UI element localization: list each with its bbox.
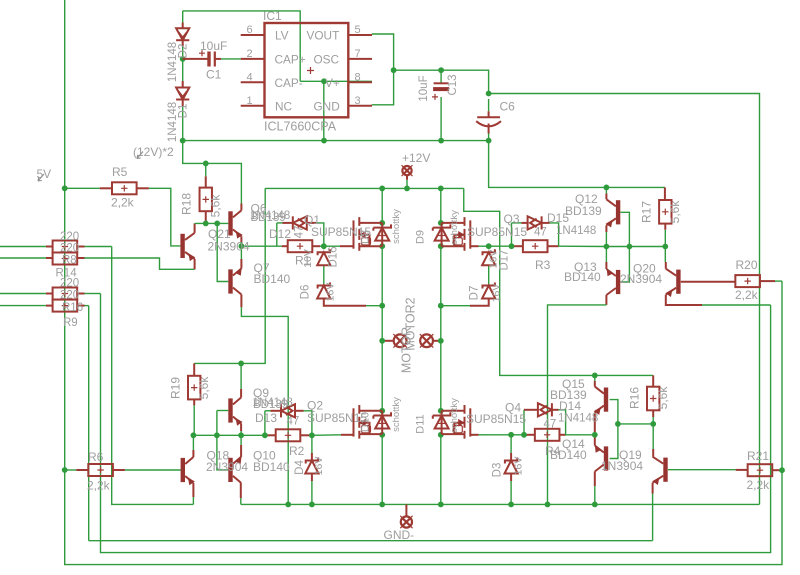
wire (12V)*2 down and across to R17 top (489, 141, 665, 188)
wire R2 right stub (300, 434, 312, 436)
wire Q7 emitter stub (240, 259, 242, 269)
svg-text:D12: D12 (269, 227, 291, 241)
svg-text:220: 220 (60, 243, 79, 255)
svg-text:R9: R9 (63, 317, 78, 329)
capacitor C13 10uF (432, 83, 449, 100)
wire D3 top stub (510, 453, 512, 461)
wire R17 bottom to row (664, 230, 666, 247)
wire Q19 collector stub (652, 449, 654, 457)
transistor Q15 BD139 (595, 387, 609, 414)
svg-text:8: 8 (355, 71, 361, 83)
wire lower-left output row (193, 434, 265, 436)
junction lower-left base link (214, 432, 220, 438)
svg-text:R20: R20 (736, 258, 758, 272)
wire R16 bottom to base row (652, 417, 654, 424)
junction lower-right emitters (592, 432, 598, 438)
wire R2 to Q2 gate (312, 434, 341, 437)
wire Q19 base to R21 (668, 469, 736, 471)
svg-text:3: 3 (355, 95, 361, 107)
svg-text:SUP85N15: SUP85N15 (466, 412, 526, 426)
svg-text:BD139: BD139 (251, 212, 286, 224)
svg-text:5: 5 (355, 24, 361, 36)
wire box1 to riser (85, 246, 112, 248)
wire box4 to line1 riser (85, 305, 89, 307)
wire pin8 node down to (12V)*2 rail (323, 81, 325, 140)
junction D1/rail (180, 138, 186, 144)
wire D6 bottom to source rail red part (324, 299, 366, 306)
motor terminal M2 right (420, 334, 433, 347)
svg-text:R16: R16 (628, 387, 642, 409)
wire Q19 emitter down crossing ground rail (652, 494, 654, 541)
wire D13 right down to gate node (304, 411, 312, 436)
svg-text:5,6k: 5,6k (197, 376, 211, 400)
svg-text:+12V: +12V (402, 151, 430, 165)
wire D17 to D7 (488, 265, 490, 285)
wire D3 bottom stub (510, 474, 512, 482)
svg-text:1N4148: 1N4148 (558, 413, 598, 425)
wire link to Q7 base (217, 223, 228, 281)
wire 220 box4 right stub (77, 305, 84, 307)
wire box3 to line2 riser (85, 293, 101, 295)
junction +12V/Q3 drain (438, 186, 444, 192)
wire Q12 collector to rail (605, 187, 607, 193)
wire D3 node to D14 node (511, 434, 524, 436)
wire V+ pin8 row (300, 80, 372, 82)
svg-text:MOTOR2: MOTOR2 (404, 297, 418, 350)
wire R6 right stub (113, 469, 125, 471)
junction R21 right bus (779, 467, 785, 473)
svg-text:V+: V+ (325, 76, 340, 90)
wire input row4 from left edge (0, 305, 46, 307)
wire node to Q6 collector (206, 163, 242, 203)
wire Q20 collector green (664, 247, 666, 263)
wire Q4 gate green part (479, 434, 489, 436)
svg-text:R21: R21 (747, 449, 769, 463)
wire R1 right to gate node (320, 245, 324, 247)
svg-text:16V: 16V (302, 249, 314, 268)
wire Q6 emitter to output node (240, 242, 242, 251)
transistor Q14 BD140 (595, 446, 608, 472)
resistor R4 47 (535, 429, 560, 441)
diode D12 1N4148 (293, 216, 307, 229)
supply (12V)*2 label (133, 145, 174, 159)
wire 5V to R5 left (65, 187, 100, 189)
transistor Q12 BD139 (606, 199, 620, 226)
resistor R17 5,6k (659, 200, 671, 224)
wire Q12 emitter stub (605, 225, 607, 232)
wire Q9 collector to +12V row (240, 363, 242, 389)
svg-text:C13: C13 (447, 74, 459, 95)
svg-text:10uF: 10uF (418, 75, 430, 101)
junction motor right (438, 338, 444, 344)
wire GND- stub (405, 504, 407, 516)
wire 220 box4 left stub (46, 305, 53, 307)
wire node down to R18 top (205, 163, 207, 176)
wire D12 left link (277, 222, 283, 224)
svg-text:R16: R16 (62, 302, 83, 314)
wire Q1 source / motor left rail (381, 246, 383, 411)
wire +12V jog down-right to R16 top (464, 188, 653, 375)
transistor Q1 SUP85N15 with schottky D8 (354, 217, 392, 251)
svg-text:6: 6 (247, 24, 253, 36)
wire R3 left stub (512, 245, 523, 247)
svg-text:D11: D11 (415, 414, 427, 433)
wire 220 box3 right stub (77, 293, 84, 295)
svg-text:D6: D6 (300, 285, 312, 300)
wire bottom line2 loop to Q20 emitter (101, 294, 771, 553)
svg-text:D1: D1 (178, 104, 190, 119)
junction rail left leg (379, 502, 385, 508)
svg-text:16V: 16V (325, 283, 337, 302)
transistor Q10 BD140 (228, 457, 241, 483)
wire Q20 collector stub (665, 262, 667, 269)
svg-text:2,2k: 2,2k (111, 196, 135, 210)
svg-text:5,6k: 5,6k (656, 386, 670, 410)
wire (12V)*2 rail (183, 140, 489, 142)
svg-text:47: 47 (544, 419, 557, 431)
resistor R21 2,2k (748, 464, 773, 476)
wire D1 top lead (182, 59, 184, 81)
wire R16 bottom pin stub (652, 410, 654, 417)
junction 5V/R5 (62, 185, 68, 191)
transistor Q20 2N3904 (666, 269, 681, 296)
resistor R6 2,2k (88, 464, 113, 476)
junction Q7 collector ground (285, 502, 291, 508)
junction R17 bottom (662, 244, 668, 250)
svg-text:5,6k: 5,6k (668, 200, 682, 224)
wire R17 top pin stub (664, 187, 666, 200)
wire D13 left link (265, 410, 271, 412)
svg-text:10uF: 10uF (200, 39, 227, 53)
wire D13 right stub (295, 410, 304, 412)
wire R4 to emitters (566, 434, 595, 436)
wire D4 bottom stub (311, 474, 313, 482)
svg-text:GND: GND (314, 99, 340, 113)
junction Q2 gate node (309, 432, 315, 438)
wire VOUT pin5 to pin3 loop (372, 34, 394, 105)
resistor R3 47 (523, 240, 548, 252)
svg-text:CAP-: CAP- (275, 76, 303, 90)
wire input row3 from left edge (0, 293, 46, 295)
wire Q15-Q14 base link (610, 400, 618, 459)
svg-text:schottky: schottky (391, 397, 402, 432)
resistor R16 5,6k (647, 387, 659, 411)
resistor R18 5,6k (200, 188, 212, 212)
wire Q13 collector to ground rail (548, 305, 607, 505)
svg-text:R6: R6 (88, 450, 104, 464)
wire upper-right emitter row (606, 246, 665, 248)
wire R5 left pin stub (100, 187, 112, 189)
wire Q20 emitter red part (666, 295, 702, 305)
wire zener clamp to motor rail (366, 305, 382, 307)
wire zener clamp to motor rail right (441, 305, 470, 307)
svg-text:2: 2 (247, 48, 253, 60)
wire D3 node down (510, 435, 512, 453)
junction Q3 drain (438, 220, 444, 226)
wire D2 bottom lead (182, 40, 184, 46)
wire Q15 collector to +12V row (594, 375, 596, 381)
svg-text:D3: D3 (492, 463, 504, 478)
junction Q3 gate node (509, 243, 515, 249)
svg-text:2N3904: 2N3904 (620, 272, 662, 286)
junction rail right leg (438, 502, 444, 508)
wire C13 top stub (440, 70, 442, 83)
wire Q10 emitter stub (240, 445, 242, 457)
wire Q9 collector stub (240, 389, 242, 398)
svg-text:schottky: schottky (449, 210, 460, 245)
svg-text:D15: D15 (547, 211, 569, 225)
junction C13 top (438, 67, 444, 73)
svg-text:16V: 16V (513, 457, 525, 476)
svg-text:D2: D2 (178, 44, 190, 59)
ground GND- symbol (400, 516, 412, 528)
wire base node row upper-left (195, 222, 229, 224)
junction R16 bottom (650, 421, 656, 427)
transistor Q4 SUP85N15 with schottky D11 (433, 405, 471, 439)
junction D4 ground (309, 502, 315, 508)
wire gate node to D16 (323, 246, 325, 249)
junction Q1 source (379, 243, 385, 249)
junction Q9 collector feed (238, 361, 244, 367)
wire input row1 from left edge (0, 246, 46, 248)
wire Q1 gate red lead (340, 245, 354, 247)
junction Q2 source (379, 432, 385, 438)
wire Q21 collector stub (194, 223, 196, 233)
wire C1 to pin2 (221, 58, 241, 60)
svg-text:2,2k: 2,2k (747, 478, 771, 492)
junction R19 bottom (191, 432, 197, 438)
junction lower-right base link (615, 421, 621, 427)
transistor Q3 SUP85N15 with schottky D9 (433, 217, 471, 251)
wire Q7 emitter link green (240, 251, 242, 259)
wire Q13 emitter stub (605, 262, 607, 269)
wire D14 left riser (523, 410, 525, 435)
junction 5V/R6 (62, 467, 68, 473)
wire Q20 base to R20 (681, 281, 736, 283)
wire zener node to gate node right (489, 245, 512, 247)
zener diode D7 16V (482, 283, 495, 299)
svg-text:1N4148: 1N4148 (556, 225, 596, 237)
transistor Q9 BD139 (228, 398, 241, 425)
wire D1 bottom lead (182, 100, 184, 107)
junction Q4 drain (438, 408, 444, 414)
wire Q4 gate red lead (470, 434, 478, 436)
svg-text:16V: 16V (313, 457, 325, 476)
wire Q21 emitter stub (194, 259, 196, 269)
wire Q14 emitter stub (594, 435, 596, 446)
wire C6 bottom lead (488, 134, 490, 141)
svg-text:R19: R19 (169, 377, 183, 399)
diode D15 1N4148 (528, 216, 542, 229)
junction Q2 drain (379, 408, 385, 414)
wire 5V bus to R6 (65, 469, 77, 471)
wire Q7 collector stub (240, 295, 242, 308)
junction rail/C6 (486, 138, 492, 144)
junction VOUT node (391, 67, 397, 73)
wire Q13 emitter green (605, 247, 607, 263)
svg-text:GND-: GND- (384, 528, 415, 542)
svg-text:47: 47 (534, 227, 547, 239)
svg-text:BD140: BD140 (254, 272, 291, 286)
supply 5V label (37, 167, 52, 181)
transistor Q6 BD139 (228, 210, 241, 237)
junction Q14 collector ground (592, 502, 598, 508)
wire +12V supply drop (406, 180, 408, 189)
svg-text:schottky: schottky (391, 209, 402, 244)
wire Q9-Q10 base link (217, 411, 228, 470)
resistor R2 47 (276, 429, 301, 441)
wire R20 right stub (760, 280, 775, 282)
wire R21 left stub (736, 469, 748, 471)
wire 220 box2 left stub (46, 257, 53, 259)
svg-text:BD140: BD140 (564, 270, 601, 284)
wire Q9 emitter to row (240, 431, 242, 435)
wire Q18 emitter stub (192, 483, 194, 497)
wire Q10 collector drop green (240, 498, 242, 504)
wire R19 top pin stub (193, 363, 195, 375)
svg-text:BD139: BD139 (253, 399, 288, 411)
svg-text:5,6k: 5,6k (209, 194, 223, 218)
junction C6 top (486, 91, 492, 97)
wire R19 bottom pin stub (193, 399, 195, 405)
junction R18 feed node (203, 161, 209, 167)
wire lower-right base row (618, 423, 653, 425)
junction clamp right (438, 303, 444, 309)
resistor R20 2,2k (735, 275, 760, 287)
wire +12V rail (265, 187, 464, 189)
svg-text:2,2k: 2,2k (735, 288, 759, 302)
svg-text:SUP85N15: SUP85N15 (307, 411, 367, 425)
resistor R19 5,6k (188, 376, 200, 400)
wire R16 top pin stub (652, 375, 654, 386)
IC1 pin stubs (241, 35, 372, 106)
zener diode D6 16V (317, 283, 330, 299)
wire R3 right stub (548, 245, 559, 247)
wire Q15 emitter stub (594, 413, 596, 435)
wire R2 left stub (265, 434, 276, 436)
svg-text:C6: C6 (500, 100, 516, 114)
wire Q14 collector stub (594, 472, 596, 487)
junction clamp left (379, 303, 385, 309)
junction motor left (379, 338, 385, 344)
wire R18 bottom pin stub (205, 211, 207, 223)
wire Q18 collector stub (192, 450, 194, 457)
junction zener chain right (486, 243, 492, 249)
svg-text:(12V)*2: (12V)*2 (133, 145, 174, 159)
svg-text:R18: R18 (180, 193, 194, 215)
svg-text:ICL7660CPA: ICL7660CPA (264, 120, 337, 134)
junction pin8 V+ (321, 78, 327, 84)
wire bottom line1 (89, 540, 653, 542)
wire R21 right stub (772, 469, 782, 471)
resistor R1 47 (288, 240, 313, 252)
svg-text:4: 4 (247, 71, 253, 83)
wire motor right stub (433, 340, 441, 342)
wire GND- rail (241, 503, 760, 505)
diode D1 1N4148 (176, 88, 189, 100)
svg-text:1: 1 (247, 95, 253, 107)
wire input row1 down to Q18 emitter return (112, 247, 194, 505)
junction D2/C1 (180, 56, 186, 62)
diode D2 1N4148 (176, 28, 189, 40)
svg-text:220: 220 (60, 231, 79, 243)
transistor Q19 2N3904 (653, 457, 668, 484)
wire R17 bottom stub (664, 223, 666, 230)
svg-text:C1: C1 (206, 68, 222, 82)
wire R4 left stub (524, 434, 535, 436)
wire base row down to Q18 collector (192, 435, 194, 450)
wire Q6 collector stub (240, 204, 242, 211)
svg-text:BD139: BD139 (565, 204, 602, 218)
wire gate node to D4 (311, 435, 313, 453)
svg-text:VOUT: VOUT (307, 29, 340, 43)
wire Q3 gate red lead (470, 245, 478, 247)
junction D14 node (521, 432, 527, 438)
wire D4 to ground rail (311, 481, 313, 504)
svg-text:D16: D16 (328, 246, 340, 267)
junction R18 bottom (203, 221, 209, 227)
wire Q7 collector to ground rail (241, 307, 288, 504)
junction Q1 gate node (321, 243, 327, 249)
resistor R9 220 (53, 300, 78, 312)
wire Q12-Q13 base link (621, 212, 630, 282)
wire D3 to ground rail (510, 481, 512, 504)
wire D15 right stub (542, 222, 550, 224)
capacitor C6 (476, 111, 501, 133)
op-amp U1 IC1 ICL7660CPA body (265, 23, 349, 117)
svg-text:BD140: BD140 (550, 448, 587, 462)
wire gate node to Q1 gate (324, 245, 340, 247)
wire Q4 gate to D3 node (488, 434, 511, 436)
wire VOUT node to C13 and C6 top (394, 70, 489, 93)
junction D3 ground (508, 502, 514, 508)
svg-text:7: 7 (355, 48, 361, 60)
svg-text:R17: R17 (640, 201, 654, 223)
junction +12V/Q1 drain (379, 186, 385, 192)
wire 220 box3 left stub (46, 293, 53, 295)
wire D14 right stub (552, 409, 559, 411)
wire R6 left stub (76, 469, 88, 471)
resistor R15 220 (53, 288, 78, 300)
wire D15 right down (550, 223, 559, 246)
svg-text:SUP85N15: SUP85N15 (467, 225, 527, 239)
svg-text:D8: D8 (360, 230, 372, 244)
wire Q2 source to ground rail (381, 435, 383, 505)
junction base link (214, 221, 220, 227)
svg-text:D14: D14 (559, 399, 581, 413)
wire +12V to Q1 drain (381, 188, 383, 223)
wire base row down to Q19 collector (652, 424, 654, 449)
wire Q10 collector stub (240, 483, 242, 498)
wire R5 right pin stub (137, 187, 149, 189)
wire 220 box1 left stub (46, 246, 53, 248)
wire +12V down-left to R19 top (194, 188, 265, 363)
wire D14 left stub (524, 409, 538, 411)
wire R2 right to gate node short (300, 434, 312, 436)
wire R6 to Q18 base (125, 469, 181, 471)
junction Q12 base link (627, 244, 633, 250)
wire rail to R18 node (183, 141, 206, 164)
wire Q10 emitter to output row (240, 435, 242, 445)
resistor R5 2,2k (112, 182, 137, 194)
svg-text:OSC: OSC (314, 52, 340, 66)
wire Q2 gate red lead (341, 434, 354, 436)
zener diode D4 16V (305, 458, 318, 474)
wire Q4 source to ground rail (440, 435, 442, 505)
wire input row2 from left edge (0, 257, 46, 259)
wire D14 right down (559, 410, 566, 435)
wire motor left stub (382, 340, 394, 342)
